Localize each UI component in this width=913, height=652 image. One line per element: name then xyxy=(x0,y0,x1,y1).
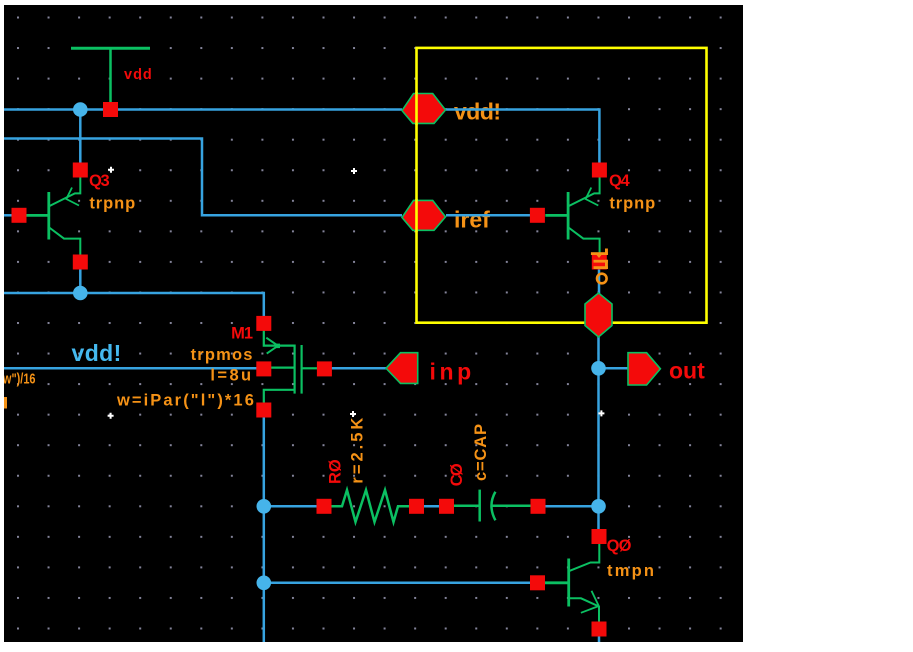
wire out net vertical xyxy=(597,337,600,537)
svg-text:l=8u: l=8u xyxy=(210,366,253,384)
svg-text:"w")/16: "w")/16 xyxy=(0,370,36,387)
label fragment left edge xyxy=(4,397,7,409)
wire C0 right to junction xyxy=(545,505,599,508)
capacitor C0 xyxy=(454,490,531,522)
svg-text:vdd!: vdd! xyxy=(454,99,501,125)
yellow edge over hexagons xyxy=(415,92,418,125)
transistor Q0 (NPN) xyxy=(545,559,569,607)
svg-text:r=2.5K: r=2.5K xyxy=(349,415,367,484)
wire M1 gate to inp pin xyxy=(324,367,387,370)
wire vdd! net rail to M1 bulk xyxy=(4,367,264,370)
pin iref hexagon xyxy=(402,200,446,230)
Q4 emitter arrow xyxy=(586,188,599,206)
wire iref net from left edge xyxy=(4,139,402,216)
grid dots xyxy=(4,5,743,642)
wire M1 drain down to bottom edge xyxy=(263,410,266,642)
svg-text:trpnp: trpnp xyxy=(609,194,656,212)
wire vdd! pin to Q4 drop xyxy=(446,110,599,171)
wire junction to Q0 base xyxy=(264,582,538,585)
orange glyph over Q4 collector square xyxy=(591,249,608,270)
yellow selection box xyxy=(417,48,707,323)
Q0 emitter arrow xyxy=(581,591,599,613)
transistor M1 (PMOS) xyxy=(264,330,318,403)
svg-text:QØ: QØ xyxy=(607,537,632,555)
wire junction to R0 left xyxy=(264,505,324,508)
wire y=293 rail to M1 source xyxy=(4,293,264,323)
wire between resistor and capacitor xyxy=(424,505,441,508)
svg-text:vdd: vdd xyxy=(124,67,153,83)
octagon out pin xyxy=(585,293,612,337)
Q3 emitter arrow xyxy=(66,188,79,206)
svg-text:Q3: Q3 xyxy=(89,172,110,190)
wire vdd rail left xyxy=(4,108,402,111)
white + markers xyxy=(108,167,605,419)
svg-text:w=iPar("l")*16: w=iPar("l")*16 xyxy=(116,392,256,410)
M1 source arrow xyxy=(266,338,278,354)
svg-text:inp: inp xyxy=(430,359,475,385)
svg-text:M1: M1 xyxy=(231,325,253,343)
wire Q3 base stub xyxy=(4,214,19,217)
svg-text:CØ: CØ xyxy=(448,463,466,486)
svg-text:trpnp: trpnp xyxy=(89,194,136,212)
pin squares (red) xyxy=(12,102,607,637)
wire Q4 collector stub to octagon xyxy=(598,268,601,295)
svg-text:Q4: Q4 xyxy=(609,172,631,190)
wire junction to Q3 emitter xyxy=(79,110,82,171)
svg-text:tmpn: tmpn xyxy=(607,562,656,580)
pin out pentagon xyxy=(628,353,660,385)
transistor Q4 (PNP) xyxy=(545,192,568,240)
pin vdd! hexagon xyxy=(402,94,446,124)
wire out pin tap xyxy=(599,367,630,370)
svg-text:out: out xyxy=(669,358,705,384)
wire Q0 emitter stub xyxy=(598,629,601,642)
svg-text:vdd!: vdd! xyxy=(72,340,122,366)
transistor Q3 (PNP) xyxy=(26,192,49,240)
resistor R0 xyxy=(331,490,410,522)
svg-text:trpmos: trpmos xyxy=(191,346,254,364)
canvas background xyxy=(4,5,743,642)
wire Q3 collector to junction xyxy=(79,262,82,293)
junction dots xyxy=(73,102,88,117)
vdd supply symbol xyxy=(71,47,150,50)
svg-text:c=CAP: c=CAP xyxy=(472,423,490,481)
svg-text:RØ: RØ xyxy=(326,459,344,484)
wire iref pin to Q4 base xyxy=(446,214,537,217)
svg-text:iref: iref xyxy=(454,207,490,233)
pin inp pentagon xyxy=(386,353,418,384)
